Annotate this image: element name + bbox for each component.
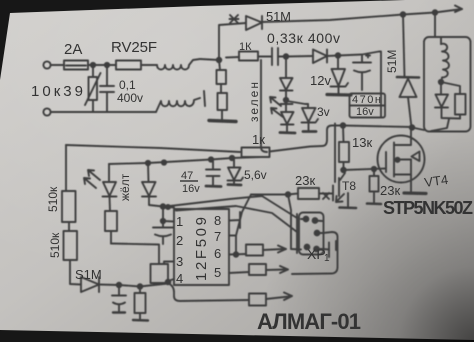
svg-text:3v: 3v <box>317 105 330 119</box>
svg-text:470н: 470н <box>352 94 381 106</box>
svg-text:RV25F: RV25F <box>111 39 157 56</box>
svg-text:16v: 16v <box>182 183 200 195</box>
svg-text:23к: 23к <box>295 173 315 188</box>
svg-text:жёлт: жёлт <box>118 173 132 201</box>
svg-text:510к: 510к <box>46 186 60 212</box>
svg-text:STP5NK50Z: STP5NK50Z <box>383 198 473 218</box>
svg-text:16v: 16v <box>356 106 374 118</box>
svg-text:1: 1 <box>324 253 330 264</box>
svg-text:8: 8 <box>214 213 221 228</box>
svg-text:2A: 2A <box>64 41 82 58</box>
svg-text:5,6v: 5,6v <box>244 168 267 182</box>
svg-text:4: 4 <box>176 271 183 286</box>
svg-text:510к: 510к <box>48 232 62 258</box>
svg-text:0,1: 0,1 <box>119 78 136 92</box>
svg-text:13к: 13к <box>352 135 372 150</box>
svg-text:51М: 51М <box>266 9 291 24</box>
svg-text:7: 7 <box>214 229 221 244</box>
svg-text:12v: 12v <box>310 73 331 88</box>
svg-text:51М: 51М <box>385 50 399 73</box>
svg-text:S1M: S1M <box>75 267 102 282</box>
svg-text:XР: XР <box>307 246 326 262</box>
svg-text:1к: 1к <box>252 132 265 147</box>
svg-text:2: 2 <box>176 233 183 248</box>
svg-text:5: 5 <box>214 265 221 280</box>
svg-text:0,33к 400v: 0,33к 400v <box>267 30 340 46</box>
svg-text:Т8: Т8 <box>342 179 356 193</box>
svg-text:400v: 400v <box>117 91 143 105</box>
svg-text:10к39: 10к39 <box>31 83 83 100</box>
svg-text:6: 6 <box>214 246 221 261</box>
svg-text:3: 3 <box>176 254 183 269</box>
svg-text:1: 1 <box>176 214 183 229</box>
svg-text:23к: 23к <box>380 183 400 198</box>
svg-text:1К: 1К <box>239 41 252 53</box>
svg-text:АЛМАГ-01: АЛМАГ-01 <box>257 309 361 334</box>
